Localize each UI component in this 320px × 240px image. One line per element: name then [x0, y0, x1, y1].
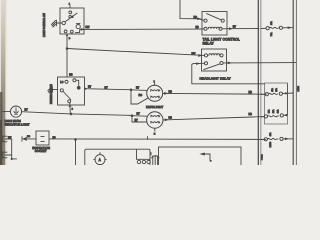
svg-text:HEADLIGHT: HEADLIGHT	[146, 105, 163, 109]
scanned page left edge stripe	[1, 0, 5, 165]
paper background	[0, 0, 305, 165]
svg-text:RB: RB	[169, 117, 173, 120]
relay coil	[204, 27, 207, 30]
wire: junction to headlight relay coil (gentle slope)	[67, 49, 204, 56]
bottom assembly box 1	[85, 149, 150, 167]
svg-text:RY: RY	[137, 112, 141, 115]
indicator to hi-beam net wire	[22, 112, 132, 116]
wire: top feed to tail relay	[180, 0, 204, 20]
inspection socket box	[36, 131, 49, 145]
fuse block right rails	[292, 0, 294, 165]
dimmer right exit wire to headlights	[85, 89, 132, 90]
svg-text:RY: RY	[135, 119, 139, 122]
coil winding (cut off)	[151, 153, 159, 165]
svg-text:RB: RB	[249, 91, 253, 94]
headlamp 1 top tick	[154, 83, 156, 86]
svg-text:RB: RB	[69, 75, 73, 77]
wire node A to headlamp1 hi	[131, 89, 147, 92]
headlamp 2 ground wire to fuse C	[163, 117, 264, 120]
svg-text:LO: LO	[60, 82, 63, 84]
tick on battery feed wire	[147, 137, 149, 140]
ground (lighting switch)	[52, 20, 63, 27]
wire stubs of headlight relay switch row	[192, 63, 265, 84]
svg-text:FUSE: FUSE	[261, 154, 263, 160]
svg-text:RY: RY	[105, 88, 109, 90]
svg-text:RW: RW	[8, 137, 11, 139]
svg-text:RELAY: RELAY	[203, 41, 215, 45]
svg-text:RB: RB	[27, 136, 31, 138]
switch SW1 contacts and blade	[62, 11, 80, 33]
svg-text:RG: RG	[139, 94, 143, 97]
svg-text:INDICATOR LIGHT: INDICATOR LIGHT	[5, 123, 30, 127]
svg-text:RB: RB	[53, 137, 57, 139]
relay K2 (headlight) box	[202, 49, 227, 71]
node at dimmer bottom terminal	[70, 113, 73, 116]
wire socket to fuse D	[49, 138, 266, 141]
fuse block sub-box (headlamp fuses)	[265, 83, 288, 124]
headlamp 1 (upper)	[147, 85, 163, 101]
fuse B	[261, 92, 293, 96]
node junction	[66, 47, 69, 50]
dimmer bottom terminal	[68, 100, 71, 103]
headlamp 2 (lower)	[147, 112, 163, 128]
svg-text:HEADLIGHT RELAY: HEADLIGHT RELAY	[200, 76, 231, 80]
relay K1 (tail light control) box	[202, 12, 227, 36]
switch SW2 (dimmer) box	[58, 77, 85, 105]
svg-text:RY: RY	[136, 87, 140, 90]
svg-text:RB: RB	[249, 113, 253, 116]
high beam indicator lamp	[3, 111, 11, 113]
svg-text:RG: RG	[194, 17, 198, 19]
wire: switch bottom vertical	[66, 34, 68, 77]
headlight feed node A	[130, 89, 133, 92]
jumper arrow inside box 2	[201, 153, 212, 162]
fuse C	[261, 114, 288, 118]
svg-text:RB: RB	[196, 27, 200, 29]
svg-text:SOCKET: SOCKET	[35, 149, 47, 153]
svg-text:LIGHT CONTROL SW: LIGHT CONTROL SW	[43, 12, 46, 37]
wire node A down and to headlamp1 lo	[131, 90, 148, 104]
svg-text:RY: RY	[25, 110, 29, 112]
bottom assembly box 2	[159, 147, 242, 167]
wire node B to headlamp2 lo	[132, 116, 147, 122]
left edge connectors (bottom)	[3, 136, 17, 160]
switch SW1 (light control) box	[60, 8, 84, 34]
svg-text:RB: RB	[169, 90, 173, 93]
wire relay to fuse A	[227, 28, 259, 30]
wire down from junction	[75, 139, 77, 165]
svg-text:HEAD: HEAD	[269, 141, 272, 147]
headlamp 1 ground wire to fuse B	[163, 92, 267, 95]
wire: lighting switch to tail relay coil	[80, 29, 202, 31]
fuse D (head)	[261, 137, 293, 141]
inspection socket feed arrow	[22, 137, 36, 142]
svg-text:RY: RY	[88, 86, 92, 88]
ammeter	[95, 155, 105, 165]
node B	[131, 114, 134, 117]
fuse block left rails	[257, 0, 259, 165]
wire node B to headlamp2 hi	[132, 115, 147, 118]
svg-text:HEAD: HEAD	[297, 85, 300, 91]
headlamp 2 bottom tick	[154, 128, 156, 131]
fuse A (tail)	[261, 26, 293, 30]
svg-text:RY: RY	[233, 27, 237, 29]
terminal strip	[137, 150, 151, 159]
ground (dimmer switch)	[48, 87, 58, 94]
junction node to battery	[74, 138, 77, 141]
